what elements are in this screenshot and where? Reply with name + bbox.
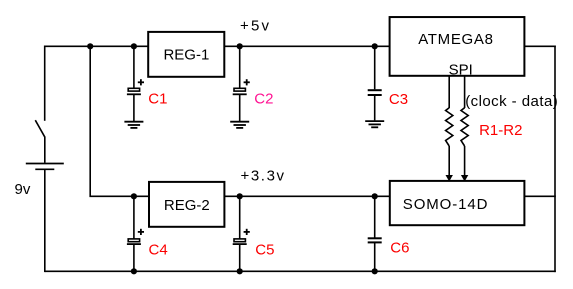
junction node mid F bbox=[237, 193, 243, 199]
switch S1 bbox=[35, 120, 45, 137]
svg-text:ATMEGA8: ATMEGA8 bbox=[418, 31, 493, 48]
svg-text:(clock - data): (clock - data) bbox=[465, 93, 558, 110]
svg-text:+5v: +5v bbox=[240, 18, 271, 35]
wire bottom rail bbox=[45, 270, 556, 272]
svg-text:C5: C5 bbox=[255, 241, 274, 258]
junction node top B bbox=[131, 43, 137, 49]
wire REG-2 right to SOMO-14D bbox=[224, 195, 389, 197]
junction node bottom H bbox=[131, 268, 137, 274]
capacitor C3 bbox=[368, 46, 382, 120]
capacitor C4 bbox=[127, 196, 144, 271]
ground for C1 bbox=[124, 122, 143, 128]
wire switch to battery bbox=[44, 137, 46, 163]
junction node bottom I bbox=[237, 268, 243, 274]
junction node mid G bbox=[372, 193, 378, 199]
svg-text:REG-1: REG-1 bbox=[163, 47, 209, 64]
junction node top C bbox=[237, 43, 243, 49]
junction node mid E bbox=[131, 193, 137, 199]
svg-text:C1: C1 bbox=[148, 91, 167, 108]
wire SOMO-14D right to right rail bbox=[524, 195, 555, 197]
ground for C2 bbox=[230, 122, 249, 128]
svg-text:C2: C2 bbox=[254, 91, 273, 108]
resistor R2 bbox=[461, 76, 468, 182]
wire top rail mid: REG-1 to ATMEGA8 bbox=[224, 45, 389, 47]
svg-text:SPI: SPI bbox=[449, 62, 473, 79]
capacitor C5 bbox=[233, 196, 250, 271]
svg-text:C4: C4 bbox=[149, 241, 168, 258]
svg-text:R1-R2: R1-R2 bbox=[479, 122, 522, 139]
wire left rail top segment bbox=[44, 46, 46, 121]
svg-text:C3: C3 bbox=[389, 91, 408, 108]
regulator REG-2 bbox=[149, 182, 224, 227]
capacitor C2 bbox=[233, 46, 250, 121]
resistor R1 bbox=[446, 76, 453, 182]
svg-text:C6: C6 bbox=[390, 240, 409, 257]
junction node top D bbox=[372, 43, 378, 49]
wire top rail right: ATMEGA8 to right rail bbox=[524, 45, 555, 47]
IC U2 SOMO-14D bbox=[390, 181, 525, 225]
capacitor C1 bbox=[127, 46, 144, 121]
wire top rail left: battery to REG-1 bbox=[45, 45, 149, 47]
regulator REG-1 bbox=[148, 32, 224, 77]
svg-text:+3.3v: +3.3v bbox=[241, 168, 286, 185]
junction node bottom J bbox=[372, 268, 378, 274]
IC U1 ATMEGA8 bbox=[390, 17, 525, 76]
wire battery to bottom rail bbox=[44, 169, 46, 272]
svg-text:9v: 9v bbox=[15, 181, 31, 198]
svg-text:SOMO-14D: SOMO-14D bbox=[403, 196, 489, 213]
svg-text:REG-2: REG-2 bbox=[164, 197, 210, 214]
battery B1 bbox=[26, 164, 64, 170]
capacitor C6 bbox=[368, 196, 382, 271]
wire second vertical bbox=[90, 46, 149, 197]
wire right rail bbox=[554, 46, 556, 273]
junction node top A bbox=[87, 43, 93, 49]
ground for C3 bbox=[365, 121, 384, 127]
